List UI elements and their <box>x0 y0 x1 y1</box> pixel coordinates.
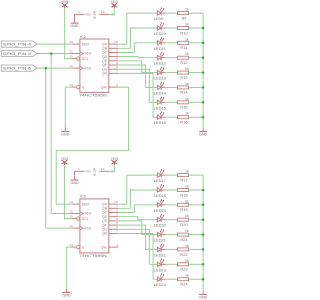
svg-text:LED11: LED11 <box>154 47 166 51</box>
wire IC3 QF to LED22 <box>118 225 157 249</box>
svg-text:RCK: RCK <box>84 226 92 230</box>
wire +3V3 to IC2 SCL <box>65 8 72 59</box>
wire LED18 to R18 <box>165 189 177 191</box>
svg-text:IC2P: IC2P <box>93 10 97 19</box>
resistor R19 1k <box>178 203 189 206</box>
wire LED20 to R20 <box>165 219 177 221</box>
wire LED14 to R14 <box>165 86 177 88</box>
LED LED16 <box>157 115 161 119</box>
svg-text:1k: 1k <box>185 8 189 12</box>
IC2 pin 7 QH <box>109 72 119 74</box>
IC2 pin 12 RCK clock <box>71 67 80 69</box>
svg-text:LED16: LED16 <box>154 121 166 125</box>
wire R20 to GND bus <box>189 219 204 221</box>
svg-text:SCL: SCL <box>82 217 89 221</box>
junction lower bus row 8 <box>202 278 205 281</box>
wire IC2 QH' to IC3 SER <box>56 87 128 204</box>
svg-text:LED17: LED17 <box>154 179 166 183</box>
svg-text:10: 10 <box>69 215 74 219</box>
IC2 pin 11 SCK clock <box>71 53 80 55</box>
svg-text:LED21: LED21 <box>154 239 166 243</box>
svg-text:1k: 1k <box>185 170 189 174</box>
IC3 pin 11 SCK clock <box>71 213 80 215</box>
svg-text:16: 16 <box>101 167 106 171</box>
svg-text:SER: SER <box>82 202 90 206</box>
svg-text:10: 10 <box>69 55 74 59</box>
svg-text:RCK: RCK <box>84 66 92 70</box>
LED LED9 <box>157 11 161 15</box>
svg-text:5: 5 <box>116 221 119 225</box>
svg-text:QH': QH' <box>101 85 108 89</box>
junction upper bus row 7 <box>202 101 205 104</box>
wire R12 to GND bus <box>189 57 204 59</box>
svg-text:GPIO_PIN-6: GPIO_PIN-6 <box>3 66 31 70</box>
svg-text:GND: GND <box>61 133 70 137</box>
junction upper bus row 2 <box>202 27 205 30</box>
svg-text:1k: 1k <box>185 67 189 71</box>
resistor R24 1k <box>178 278 189 281</box>
IC3 pin 15 QA <box>109 203 119 205</box>
svg-text:8: 8 <box>78 167 80 171</box>
wire IC3 QG to LED23 <box>118 229 157 264</box>
svg-text:12: 12 <box>69 224 74 228</box>
svg-text:IC3: IC3 <box>80 195 86 199</box>
wire R23 to GND bus <box>189 263 204 265</box>
wire LED12 to R12 <box>165 57 177 59</box>
svg-text:R15: R15 <box>180 106 187 110</box>
IC2P power gate pin 16 VCC <box>99 13 109 15</box>
resistor R14 1k <box>178 86 189 89</box>
IC2 pin 13 G inverted <box>71 86 76 88</box>
LED LED14 <box>157 85 161 89</box>
IC2 pin 15 QA <box>109 43 119 45</box>
wire GPIO_PIN-5 to IC2 SCK <box>37 53 71 55</box>
wire LED15 to R15 <box>165 101 177 103</box>
svg-text:LED24: LED24 <box>154 283 166 287</box>
wire R21 to GND bus <box>189 234 204 236</box>
wire R19 to GND bus <box>189 204 204 206</box>
LED LED22 <box>157 247 161 251</box>
svg-text:LED13: LED13 <box>154 77 166 81</box>
wire IC3 QC to LED19 <box>118 205 157 213</box>
svg-text:LED12: LED12 <box>154 62 166 66</box>
LED LED10 <box>157 26 161 30</box>
svg-text:R18: R18 <box>180 193 187 197</box>
ground lower LED bus <box>202 290 204 294</box>
svg-text:SCL: SCL <box>82 57 89 61</box>
svg-text:SCK: SCK <box>84 212 92 216</box>
svg-text:R14: R14 <box>180 91 187 95</box>
IC2 pin 6 QG <box>109 68 119 70</box>
IC2 pin 14 SER <box>71 43 80 45</box>
IC3 pin 10 SCL inverted <box>71 218 76 220</box>
ground below IC2 <box>64 127 66 131</box>
junction upper bus row 3 <box>202 42 205 45</box>
svg-text:IC2: IC2 <box>80 35 86 39</box>
junction lower bus row 7 <box>202 263 205 266</box>
svg-text:5: 5 <box>116 61 119 65</box>
svg-text:LED20: LED20 <box>154 224 166 228</box>
svg-text:1k: 1k <box>185 229 189 233</box>
wire LED13 to R13 <box>165 72 177 74</box>
resistor R12 1k <box>178 56 189 59</box>
LED LED11 <box>157 41 161 45</box>
svg-text:R10: R10 <box>180 31 187 35</box>
svg-text:R9: R9 <box>182 16 187 20</box>
svg-text:14: 14 <box>69 40 74 44</box>
svg-text:GND: GND <box>86 13 91 17</box>
wire lower GND bus <box>202 175 204 290</box>
resistor R20 1k <box>178 218 189 221</box>
LED LED18 <box>157 188 161 192</box>
svg-text:LED14: LED14 <box>154 91 166 95</box>
wire IC2 G to ground <box>65 87 71 127</box>
wire upper GND bus <box>202 13 204 127</box>
wire R18 to GND bus <box>189 189 204 191</box>
resistor R23 1k <box>178 263 189 266</box>
node GPIO_PIN-6 flag <box>1 65 37 71</box>
LED LED23 <box>157 262 161 266</box>
svg-text:R16: R16 <box>180 121 187 125</box>
IC3 pin 12 RCK clock <box>71 227 80 229</box>
IC2 pin 10 SCL inverted <box>71 58 76 60</box>
svg-text:1k: 1k <box>185 82 189 86</box>
wire LED22 to R22 <box>165 248 177 250</box>
wire LED10 to R10 <box>165 27 177 29</box>
svg-text:R13: R13 <box>180 76 187 80</box>
wire +3V3 to IC3 VCC pin 16 <box>110 165 115 172</box>
IC2 pin 9 QH' <box>109 86 119 88</box>
wire R9 to GND bus <box>189 12 204 14</box>
resistor R11 1k <box>178 41 189 44</box>
wire IC3 QD to LED20 <box>118 217 157 220</box>
IC3P pin 8 down wire <box>74 171 76 175</box>
svg-text:R12: R12 <box>180 61 187 65</box>
LED LED19 <box>157 203 161 207</box>
svg-text:1k: 1k <box>185 199 189 203</box>
svg-text:1k: 1k <box>185 185 189 189</box>
LED LED21 <box>157 233 161 237</box>
svg-text:14: 14 <box>69 200 74 204</box>
svg-text:11: 11 <box>69 49 74 53</box>
IC3 pin 6 QG <box>109 228 119 230</box>
junction lower bus row 4 <box>202 218 205 221</box>
ground at IC2P pin 8 <box>74 19 76 23</box>
IC2 pin 5 QF <box>109 64 119 66</box>
wire +3V3 to IC2 VCC pin 16 <box>110 8 115 15</box>
resistor R10 1k <box>178 27 189 30</box>
IC3 pin 9 QH' <box>109 246 119 248</box>
svg-text:13: 13 <box>69 83 74 87</box>
LED LED12 <box>157 56 161 60</box>
IC3 pin 1 QB <box>109 207 119 209</box>
svg-text:SER: SER <box>82 42 90 46</box>
svg-text:1: 1 <box>116 44 119 48</box>
resistor R21 1k <box>178 233 189 236</box>
svg-text:1k: 1k <box>185 259 189 263</box>
svg-text:R19: R19 <box>180 208 187 212</box>
IC3P power gate pin 8 GND <box>74 170 85 172</box>
wire IC3 QE to LED21 <box>118 221 157 235</box>
junction lower bus row 6 <box>202 248 205 251</box>
IC3 pin 2 QC <box>109 212 119 214</box>
svg-text:2: 2 <box>116 208 119 212</box>
svg-text:LED9: LED9 <box>154 17 164 21</box>
svg-text:1k: 1k <box>185 214 189 218</box>
svg-text:1k: 1k <box>185 52 189 56</box>
wire LED19 to R19 <box>165 204 177 206</box>
wire R10 to GND bus <box>189 27 204 29</box>
IC2P pin 8 down wire <box>74 14 76 18</box>
svg-text:6: 6 <box>116 65 119 69</box>
IC2P power gate pin 8 GND <box>74 13 85 15</box>
svg-text:3: 3 <box>116 53 119 57</box>
svg-text:15: 15 <box>114 40 119 44</box>
svg-text:9: 9 <box>117 83 119 87</box>
junction RCK net <box>45 67 48 70</box>
svg-text:QH': QH' <box>101 245 108 249</box>
svg-text:GPIO_PIN-5: GPIO_PIN-5 <box>3 52 31 56</box>
IC3 pin 3 QD <box>109 216 119 218</box>
junction lower bus row 5 <box>202 233 205 236</box>
svg-text:R21: R21 <box>180 238 187 242</box>
svg-text:LED15: LED15 <box>154 106 166 110</box>
IC3P power gate pin 16 VCC <box>99 170 109 172</box>
resistor R13 1k <box>178 71 189 74</box>
svg-text:R24: R24 <box>180 283 187 287</box>
svg-text:16: 16 <box>101 10 106 14</box>
junction SCK net <box>50 52 53 55</box>
svg-text:IC3P: IC3P <box>93 167 97 176</box>
wire LED23 to R23 <box>165 263 177 265</box>
svg-text:12: 12 <box>69 64 74 68</box>
svg-text:GND: GND <box>70 24 79 28</box>
resistor R18 1k <box>178 189 189 192</box>
svg-text:1k: 1k <box>185 274 189 278</box>
wire R22 to GND bus <box>189 248 204 250</box>
wire IC2 QE to LED13 <box>118 61 157 73</box>
wire IC2 QC to LED11 <box>118 43 157 53</box>
junction lower bus row 3 <box>202 204 205 207</box>
svg-text:9: 9 <box>117 243 119 247</box>
wire LED21 to R21 <box>165 234 177 236</box>
wire IC3 QH to LED24 <box>118 234 157 280</box>
wire RCK net down to IC3 <box>46 68 72 228</box>
svg-text:GND: GND <box>199 296 208 300</box>
svg-text:1k: 1k <box>185 23 189 27</box>
wire R15 to GND bus <box>189 101 204 103</box>
LED LED24 <box>157 277 161 281</box>
LED LED20 <box>157 218 161 222</box>
wire LED24 to R24 <box>165 278 177 280</box>
LED LED13 <box>157 71 161 75</box>
wire IC2 QD to LED12 <box>118 57 157 58</box>
junction upper bus row 5 <box>202 71 205 74</box>
IC2 pin 1 QB <box>109 47 119 49</box>
svg-text:LED18: LED18 <box>154 194 166 198</box>
resistor R16 1k <box>178 116 189 119</box>
wire IC3 QB to LED18 <box>118 190 157 208</box>
svg-text:1k: 1k <box>185 244 189 248</box>
resistor R17 1k <box>178 174 189 177</box>
wire R13 to GND bus <box>189 72 204 74</box>
wire R11 to GND bus <box>189 42 204 44</box>
ground upper LED bus <box>202 127 204 131</box>
wire LED9 to R9 <box>165 12 177 14</box>
svg-text:13: 13 <box>69 243 74 247</box>
IC2 pin 4 QE <box>109 60 119 62</box>
wire R16 to GND bus <box>189 116 204 118</box>
svg-text:R23: R23 <box>180 268 187 272</box>
wire IC2 QB to LED10 <box>118 28 157 48</box>
svg-text:7: 7 <box>116 229 119 233</box>
svg-text:LED23: LED23 <box>154 268 166 272</box>
svg-text:3: 3 <box>116 213 119 217</box>
resistor R9 1k <box>178 12 189 15</box>
LED LED17 <box>157 173 161 177</box>
wire GPIO_PIN-6 to IC2 RCK <box>37 67 71 69</box>
wire IC2 QH to LED16 <box>118 73 157 117</box>
IC2 pin 2 QC <box>109 52 119 54</box>
node GPIO_PIN-4 flag <box>1 41 37 47</box>
IC2 pin 3 QD <box>109 56 119 58</box>
wire R24 to GND bus <box>189 278 204 280</box>
wire IC3 QA to LED17 <box>118 175 157 204</box>
svg-text:SCK: SCK <box>84 52 92 56</box>
wire GPIO_PIN-4 to IC2 SER <box>37 43 71 45</box>
IC3 pin 7 QH <box>109 233 119 235</box>
svg-text:4: 4 <box>116 217 119 221</box>
svg-text:6: 6 <box>116 225 119 229</box>
wire +3V3 to IC3 SCL <box>64 165 71 219</box>
wire R17 to GND bus <box>189 174 204 176</box>
svg-text:R17: R17 <box>180 178 187 182</box>
IC3 pin 5 QF <box>109 224 119 226</box>
svg-text:1k: 1k <box>185 37 189 41</box>
junction upper bus row 6 <box>202 86 205 89</box>
svg-text:GND: GND <box>63 294 72 298</box>
node GPIO_PIN-5 flag <box>1 50 37 56</box>
junction lower bus row 2 <box>202 189 205 192</box>
IC3 pin 14 SER <box>71 203 80 205</box>
wire SCK net down to IC3 <box>51 54 71 214</box>
svg-text:1k: 1k <box>185 112 189 116</box>
svg-text:8: 8 <box>78 10 80 14</box>
svg-text:QH: QH <box>102 72 108 76</box>
ground at IC3P pin 8 <box>74 176 76 180</box>
resistor R22 1k <box>178 248 189 251</box>
svg-text:R11: R11 <box>180 46 187 50</box>
svg-text:4: 4 <box>116 57 119 61</box>
junction upper bus row 4 <box>202 56 205 59</box>
svg-text:LED22: LED22 <box>154 253 166 257</box>
svg-text:QH: QH <box>102 232 108 236</box>
wire LED17 to R17 <box>165 174 177 176</box>
wire IC3 G to ground <box>67 247 72 288</box>
svg-text:74HCT595N: 74HCT595N <box>79 254 107 258</box>
svg-text:GND: GND <box>86 169 91 173</box>
junction upper bus row 8 <box>202 116 205 119</box>
svg-text:15: 15 <box>114 200 119 204</box>
svg-text:7: 7 <box>116 69 119 73</box>
wire IC2 QG to LED15 <box>118 69 157 102</box>
svg-text:LED19: LED19 <box>154 209 166 213</box>
wire IC2 QF to LED14 <box>118 65 157 87</box>
svg-text:2: 2 <box>116 48 119 52</box>
LED LED15 <box>157 100 161 104</box>
wire LED11 to R11 <box>165 42 177 44</box>
svg-text:LED10: LED10 <box>154 32 166 36</box>
wire IC2 QA to LED9 <box>118 13 157 44</box>
svg-text:GPIO_PIN-4: GPIO_PIN-4 <box>3 42 31 46</box>
svg-text:1k: 1k <box>185 97 189 101</box>
svg-text:11: 11 <box>69 209 74 213</box>
svg-text:GND: GND <box>70 181 79 185</box>
svg-text:R20: R20 <box>180 223 187 227</box>
wire LED16 to R16 <box>165 116 177 118</box>
ground below IC3 <box>66 288 68 292</box>
IC3 pin 4 QE <box>109 220 119 222</box>
wire R14 to GND bus <box>189 86 204 88</box>
resistor R15 1k <box>178 101 189 104</box>
IC3 pin 13 G inverted <box>71 246 76 248</box>
svg-text:GND: GND <box>199 133 208 137</box>
svg-text:R22: R22 <box>180 253 187 257</box>
svg-text:74HCT595N: 74HCT595N <box>79 93 107 97</box>
svg-text:1: 1 <box>116 204 119 208</box>
